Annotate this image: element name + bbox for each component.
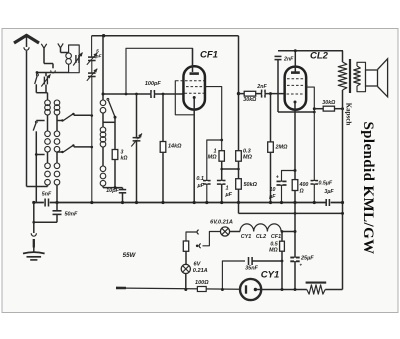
- svg-text:0.5: 0.5: [270, 241, 278, 247]
- svg-text:3µF: 3µF: [324, 189, 334, 195]
- svg-text:CL2: CL2: [256, 234, 266, 240]
- svg-text:30kΩ: 30kΩ: [243, 97, 257, 103]
- svg-text:35nF: 35nF: [245, 266, 258, 272]
- svg-text:+: +: [276, 175, 279, 181]
- svg-text:50nF: 50nF: [65, 212, 78, 218]
- svg-text:CF1: CF1: [271, 234, 281, 240]
- svg-text:25µF: 25µF: [300, 256, 314, 262]
- svg-text:50kΩ: 50kΩ: [244, 182, 258, 188]
- svg-text:µF: µF: [268, 194, 276, 200]
- svg-text:pF: pF: [95, 54, 103, 60]
- svg-text:6V,0.21A: 6V,0.21A: [210, 219, 233, 225]
- svg-text:Ω: Ω: [299, 189, 305, 195]
- svg-text:CF1: CF1: [200, 50, 218, 61]
- svg-text:10pF: 10pF: [106, 188, 119, 194]
- svg-text:2MΩ: 2MΩ: [275, 145, 289, 151]
- svg-text:CY1: CY1: [261, 270, 279, 281]
- svg-text:+: +: [300, 263, 303, 268]
- svg-text:CY1: CY1: [241, 234, 252, 240]
- svg-text:2nF: 2nF: [256, 84, 267, 90]
- svg-text:CL2: CL2: [310, 51, 329, 62]
- svg-text:5nF: 5nF: [42, 192, 52, 198]
- svg-text:0.5µF: 0.5µF: [319, 181, 333, 187]
- svg-text:55W: 55W: [123, 252, 137, 259]
- svg-text:1: 1: [226, 186, 229, 192]
- svg-text:2nF: 2nF: [283, 57, 294, 63]
- svg-text:14kΩ: 14kΩ: [168, 144, 182, 150]
- svg-text:0.1: 0.1: [196, 176, 204, 182]
- svg-text:MΩ: MΩ: [243, 155, 253, 161]
- svg-text:30kΩ: 30kΩ: [322, 100, 336, 106]
- svg-text:MΩ: MΩ: [208, 155, 218, 161]
- svg-text:MΩ: MΩ: [269, 248, 278, 254]
- svg-text:0.21A: 0.21A: [193, 268, 208, 274]
- svg-text:Splendid KML/GW: Splendid KML/GW: [360, 121, 376, 254]
- svg-text:µF: µF: [196, 183, 204, 189]
- svg-text:10: 10: [270, 187, 276, 193]
- svg-text:Kapsch: Kapsch: [345, 103, 353, 126]
- svg-text:100Ω: 100Ω: [195, 280, 209, 286]
- svg-text:400: 400: [299, 182, 309, 188]
- svg-text:kΩ: kΩ: [121, 156, 128, 162]
- svg-text:µF: µF: [225, 192, 233, 198]
- svg-text:100pF: 100pF: [145, 81, 162, 87]
